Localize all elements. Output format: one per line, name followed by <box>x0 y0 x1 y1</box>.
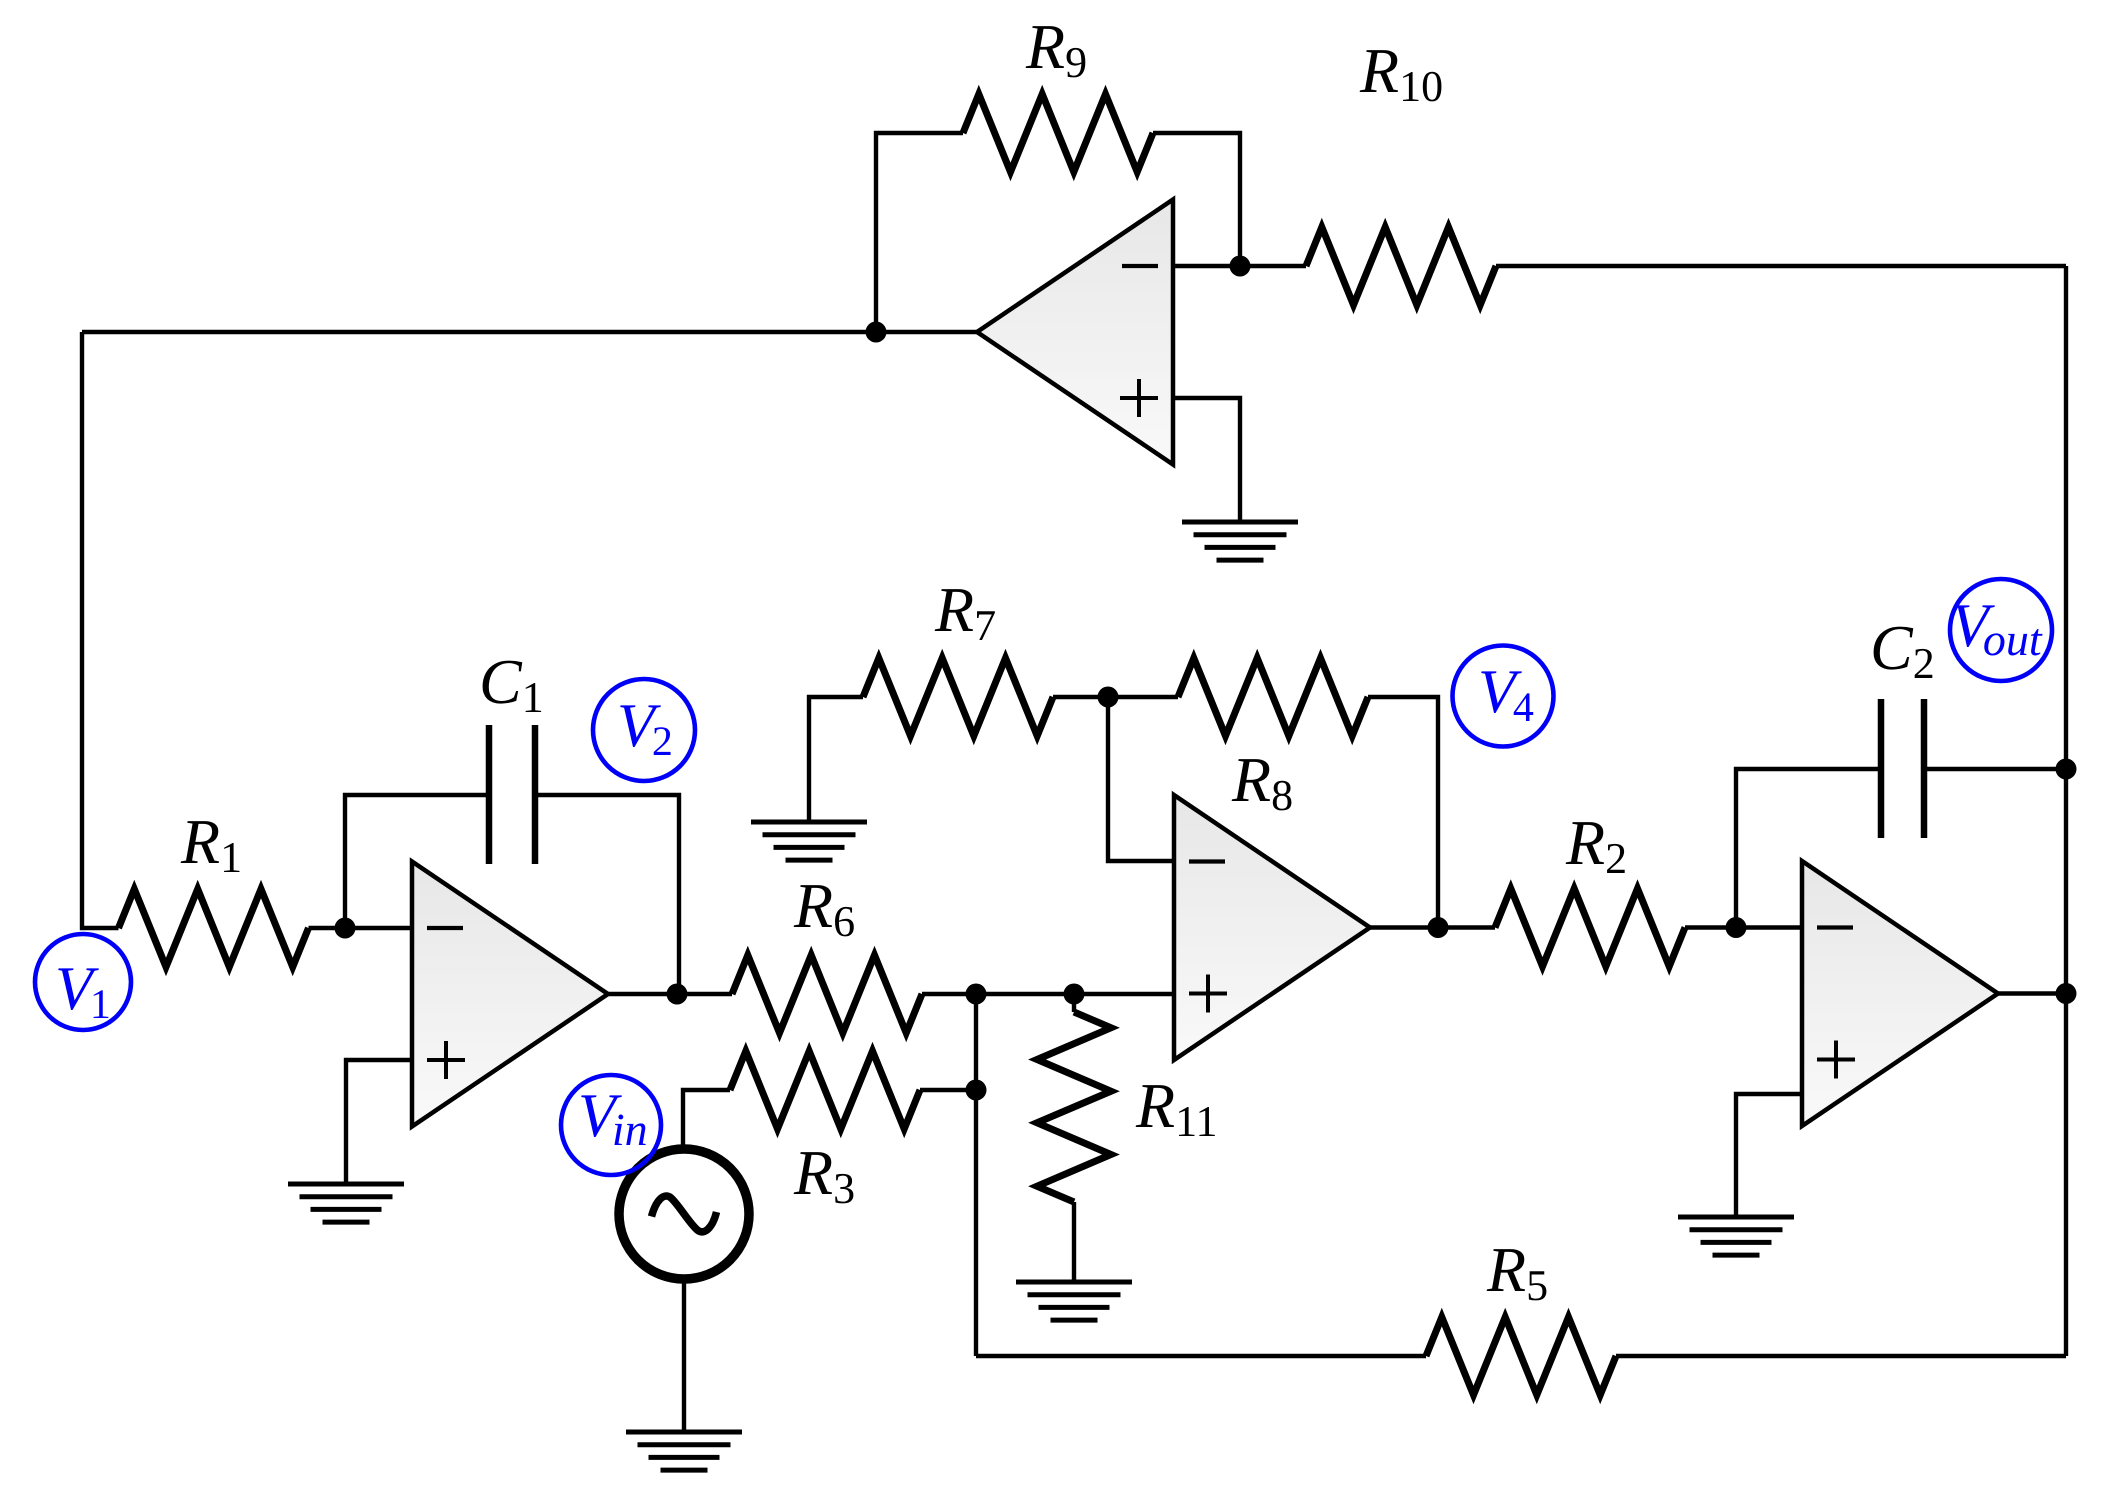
voltage source Vin (sine) <box>619 1149 749 1279</box>
node label V4 <box>1453 646 1554 747</box>
node junction: R11 top <box>1064 984 1085 1005</box>
ground below U3 plus input <box>1678 1215 1794 1220</box>
U1 plus pin marker <box>427 1058 465 1062</box>
wire: R3 to junction column <box>920 1088 976 1092</box>
ground below Vin <box>626 1430 742 1435</box>
op-amp U3 (right) <box>1802 861 1998 1126</box>
node junction: R7/R8 <box>1098 687 1119 708</box>
node junction: R2/C2/U3 minus <box>1726 917 1747 938</box>
node label V1 <box>35 934 131 1030</box>
wire: R7/R8 junction down to middle op-amp minus input <box>1108 697 1174 861</box>
wire: U3 plus side to ground <box>1736 1094 1802 1216</box>
U4 minus pin marker <box>1122 264 1158 268</box>
resistor R7 <box>863 658 1053 736</box>
wire: U1 output row / R6 row <box>608 992 732 996</box>
wire: Vin bottom to ground <box>682 1279 686 1431</box>
ground below U1 plus input <box>288 1182 404 1187</box>
wire: Vin to R3 <box>683 1090 730 1149</box>
node junction: U1 output/C1 right <box>667 984 688 1005</box>
node junction: U4 minus/R9/R10 <box>1230 256 1251 277</box>
wire: left vertical feedback (V1 column) <box>82 332 119 928</box>
wire: junction column x=976 down to bottom feedback row <box>974 994 978 1356</box>
U2 plus pin marker <box>1189 992 1227 996</box>
node junction: U2 output/V4 <box>1428 917 1449 938</box>
U3 plus pin marker <box>1817 1058 1855 1062</box>
wire: C2 right plate to Vout column <box>1927 767 2066 771</box>
wire: R8 right end down to V4 node <box>1368 697 1438 927</box>
node junction: U3 output/Vout column <box>2056 983 2077 1004</box>
node junction: R1/C1/U1 minus <box>335 918 356 939</box>
wire: R7 left branch with ground <box>809 697 863 822</box>
wire: U4 minus input to node <box>1173 264 1240 268</box>
wire: bottom feedback row <box>976 1354 1426 1358</box>
op-amp U2 (middle) <box>1174 795 1370 1060</box>
wire: R1 to minus node of left op-amp <box>309 926 413 930</box>
resistor R3 <box>730 1051 920 1129</box>
node label Vin <box>561 1075 661 1175</box>
node junction: R3/vertical column <box>966 1080 987 1101</box>
op-amp U4 (top, pointing left) <box>977 200 1173 465</box>
resistor R2 <box>1495 889 1685 967</box>
wire: U2 output to V4 node <box>1370 925 1438 929</box>
U1 minus pin marker <box>427 926 463 930</box>
wire: top op-amp output to far left <box>82 330 977 334</box>
wire: C1 right plate to V2 column down to output row <box>538 795 679 994</box>
U2 minus pin marker <box>1189 859 1225 863</box>
op-amp U1 (left) <box>412 862 608 1127</box>
U3 minus pin marker <box>1817 925 1853 929</box>
wire: R9 right end down to U4 minus node <box>1153 133 1240 266</box>
wire: R6 to middle op-amp plus input <box>922 992 1174 996</box>
node junction: R6/vertical column <box>966 984 987 1005</box>
wire: U1 plus input to ground <box>346 1060 412 1184</box>
wire: C2 left branch <box>1736 769 1878 928</box>
node junction: feedback/R9 left <box>866 322 887 343</box>
wire: Vout column (right vertical) <box>2064 266 2068 1356</box>
wire: R11 stubs <box>1072 994 1076 1012</box>
wire: V4 node to R2 <box>1438 925 1495 929</box>
U4 plus pin marker <box>1120 396 1158 400</box>
wire: R10 to Vout column top <box>1496 264 2066 268</box>
wire: U4 plus input to ground <box>1173 398 1240 521</box>
resistor R11 (vertical) <box>1037 1012 1111 1202</box>
wire: R9 feedback loop <box>876 133 963 332</box>
ground below R11 <box>1016 1280 1132 1285</box>
resistor R8 <box>1178 658 1368 736</box>
node label Vout <box>1950 579 2052 681</box>
wire: C1 left branch from minus node <box>345 795 486 928</box>
ground below R7 left end <box>751 820 867 825</box>
ground below U4 plus input <box>1182 520 1298 525</box>
wire: R2 to right op-amp minus input <box>1685 925 1802 929</box>
resistor R9 <box>963 94 1153 172</box>
capacitor C1 <box>486 725 493 864</box>
capacitor C2 <box>1878 699 1885 838</box>
resistor R5 <box>1426 1317 1616 1395</box>
resistor R6 <box>732 955 922 1033</box>
node label V2 <box>593 679 695 781</box>
resistor R10 <box>1240 264 1306 268</box>
node junction: C2 right/Vout column <box>2056 759 2077 780</box>
resistor R1 <box>119 889 309 967</box>
wire: R7 to R8 junction <box>1053 695 1178 699</box>
wire: U3 output to Vout column <box>1998 991 2066 995</box>
